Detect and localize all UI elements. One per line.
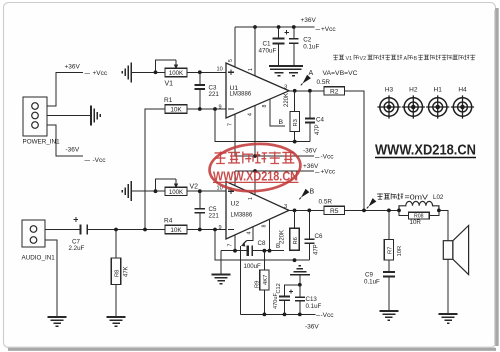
node output bus [362, 209, 366, 213]
label +36V rail [301, 17, 317, 24]
svg-text:0.1uF: 0.1uF [306, 303, 322, 310]
wire C7 to R4 [88, 229, 165, 231]
red watermark stamp [208, 141, 302, 194]
svg-text:LM3886: LM3886 [230, 91, 252, 97]
pin 4 U1 [248, 105, 257, 158]
capacitor C12 470uF [273, 283, 293, 314]
ground R8 [107, 317, 126, 326]
wire R1 left to audio input [145, 109, 165, 230]
svg-text:R1: R1 [164, 97, 173, 104]
svg-text:1: 1 [248, 68, 254, 71]
wire -36V from POWER_IN1 [47, 125, 83, 156]
node C6 top [307, 209, 311, 213]
svg-text:7: 7 [228, 123, 234, 126]
svg-text:-Vcc: -Vcc [321, 312, 335, 319]
capacitor C6 47P [304, 210, 323, 260]
node R3 top [293, 89, 297, 93]
svg-text:A: A [404, 56, 408, 62]
wire R3 top stem [294, 91, 296, 112]
wire R6 top stem [294, 210, 296, 228]
wire to C12 [285, 285, 300, 296]
mounting hole H2 [402, 87, 425, 119]
resistor R8 47K [111, 230, 129, 318]
pin 10 label U1 [217, 67, 223, 73]
node C13 bottom [298, 313, 302, 317]
pin 1 U1 [248, 25, 257, 75]
svg-text:5: 5 [228, 59, 234, 62]
svg-text:WWW.XD218.CN: WWW.XD218.CN [375, 142, 476, 159]
ground C9 [379, 311, 398, 320]
svg-text:2.2uF: 2.2uF [69, 245, 85, 252]
resistor R3 220K [290, 112, 299, 132]
wire R5 to L02 [345, 209, 400, 211]
svg-text:3: 3 [284, 85, 287, 91]
wire V2 wiper tie [156, 179, 177, 191]
wire speaker to ground [447, 259, 449, 314]
svg-text:L02: L02 [433, 194, 444, 201]
label V2 [190, 184, 199, 191]
svg-text:R6: R6 [293, 237, 299, 244]
power port +Vcc [85, 70, 108, 77]
svg-text:9: 9 [219, 225, 222, 231]
svg-text:0.1uF: 0.1uF [303, 44, 319, 51]
wire U2 feedback [215, 230, 309, 263]
svg-text:10R: 10R [397, 246, 403, 257]
label -36V [66, 147, 80, 154]
svg-text:C8: C8 [258, 240, 266, 247]
svg-text:POWER_IN1: POWER_IN1 [23, 139, 61, 146]
svg-text:+Vcc: +Vcc [321, 169, 336, 176]
potentiometer V1 [165, 68, 187, 77]
svg-text:B: B [279, 119, 284, 126]
ground at POWER_IN1 [91, 106, 100, 126]
svg-text:R7: R7 [388, 247, 394, 254]
svg-text:VA=VB=VC: VA=VB=VC [323, 70, 358, 77]
capacitor C13 0.1uF [295, 285, 322, 315]
wire V2 to U2 pin10 [187, 190, 226, 192]
svg-text:4: 4 [248, 113, 254, 116]
svg-text:470uF: 470uF [259, 48, 277, 55]
wire R3 bottom stem [294, 132, 296, 142]
node C1 [277, 25, 281, 29]
wire C8 to ground [220, 251, 222, 275]
ground left of V1 [122, 62, 131, 82]
svg-text:C2: C2 [303, 37, 312, 44]
wire ground to V2 [131, 190, 165, 192]
svg-text:B: B [414, 56, 418, 62]
svg-text:LM3886: LM3886 [231, 213, 253, 219]
ground AUDIO_IN1 [48, 317, 67, 326]
svg-text:WWW.XD218.CN: WWW.XD218.CN [213, 169, 298, 183]
node feedback U2 [213, 228, 217, 232]
svg-text:+36V: +36V [303, 163, 319, 170]
svg-text:10: 10 [217, 67, 223, 73]
label L02 [433, 194, 444, 201]
svg-text:H1: H1 [434, 87, 443, 94]
pin 9 label U1 [219, 105, 222, 111]
pin 5 U1 [228, 27, 235, 67]
resistor R4 10K [164, 218, 187, 235]
svg-text:C1: C1 [263, 41, 272, 48]
label -36V bottom [305, 324, 319, 331]
resistor R5 0.5R [324, 206, 345, 215]
svg-text:220K: 220K [284, 93, 290, 107]
ground above C12 C13 [290, 266, 310, 285]
label 0.5R R2 [317, 79, 331, 86]
ground speaker [439, 314, 458, 323]
inductor L02 [399, 201, 439, 210]
ground left of V2 [122, 181, 131, 201]
capacitor C2 0.1uF [289, 27, 319, 66]
website WWW.XD218.CN [375, 142, 476, 159]
svg-text:3: 3 [284, 204, 287, 210]
capacitor C3 221 [195, 72, 220, 109]
node V1 wiper tie [154, 70, 158, 74]
potentiometer V1 wiper arrow [174, 60, 178, 69]
wire ground to V1 [131, 71, 165, 73]
resistor R2 0.5R [324, 87, 345, 96]
pin 4 U2 to -Vcc [241, 227, 253, 314]
pin 5 U2 [228, 171, 235, 190]
node R7 branch [387, 209, 391, 213]
node C5 bottom [198, 228, 202, 232]
svg-text:100K: 100K [169, 70, 183, 77]
wire R4 to U2 pin9 [187, 229, 226, 231]
label -36V stub [303, 148, 317, 155]
svg-text:R5: R5 [330, 208, 339, 215]
pin 7 U2 [228, 235, 236, 251]
svg-text:C9: C9 [365, 272, 373, 279]
svg-text:1: 1 [248, 197, 254, 200]
resistor R1 10K [164, 97, 187, 114]
svg-text:4: 4 [247, 232, 253, 235]
wire AUDIO_IN1 to C7 [45, 229, 80, 231]
capacitor C9 0.1uF [364, 260, 395, 311]
wire AUDIO_IN1 bottom pin [45, 240, 57, 317]
node C12 C13 top [298, 283, 302, 287]
svg-text:V2: V2 [190, 184, 199, 191]
svg-text:+36V: +36V [65, 64, 81, 71]
capacitor C8 100uF [244, 240, 266, 270]
connector AUDIO_IN1 [22, 220, 56, 262]
svg-text:+Vcc: +Vcc [93, 70, 108, 77]
potentiometer V2 [165, 187, 187, 196]
pin 10 label U2 [217, 186, 223, 192]
resistor R7 10R [384, 210, 403, 260]
label 中点电位=0mV [377, 193, 428, 201]
node C4 top [308, 89, 312, 93]
svg-text:V1: V1 [346, 56, 353, 62]
svg-text:-36V: -36V [303, 148, 317, 155]
svg-text:B: B [310, 189, 315, 196]
pin 7 U1 [228, 114, 236, 156]
svg-text:+36V: +36V [301, 17, 317, 24]
node R9 bottom [263, 313, 267, 317]
svg-text:R3: R3 [293, 119, 299, 126]
node V2 wiper tie [154, 189, 158, 193]
annotation adjust V1 V2 [333, 55, 475, 62]
capacitor C1 470uF [259, 27, 290, 66]
label B at U2 pin8 [276, 243, 280, 250]
svg-text:0.1uF: 0.1uF [364, 279, 380, 286]
svg-text:8: 8 [262, 105, 268, 108]
mounting hole H3 [377, 87, 400, 119]
svg-text:+Vcc: +Vcc [321, 26, 336, 33]
node feedback U1 [213, 107, 217, 111]
capacitor C7 2.2uF [69, 217, 88, 252]
wire U1 output [289, 90, 324, 92]
label 0.5R R5 [319, 199, 333, 206]
svg-text:10K: 10K [170, 107, 182, 114]
node audio R1 junction [143, 228, 147, 232]
pin 1 U2 [248, 171, 255, 200]
svg-text:A: A [309, 70, 314, 77]
node L02 left [397, 209, 401, 213]
svg-text:V1: V1 [165, 81, 174, 88]
node C2 [292, 25, 296, 29]
svg-text:9: 9 [219, 105, 222, 111]
node R6 top [293, 209, 297, 213]
node C3 top [198, 70, 202, 74]
svg-text:H3: H3 [385, 87, 394, 94]
wire V1 wiper tie [156, 60, 177, 72]
svg-text:470uF: 470uF [273, 293, 279, 309]
svg-text:100uF: 100uF [244, 263, 262, 270]
label 220K R6 [280, 230, 286, 244]
ground C8 [212, 275, 231, 284]
svg-text:0.5R: 0.5R [319, 199, 333, 206]
svg-text:U2: U2 [231, 201, 240, 208]
svg-text:8: 8 [262, 225, 268, 228]
capacitor C5 221 [195, 191, 220, 229]
wire POWER_IN1 middle pin [47, 115, 91, 117]
svg-text:0.5R: 0.5R [317, 79, 331, 86]
svg-text:4K7: 4K7 [263, 275, 269, 285]
connector POWER_IN1 [23, 97, 61, 146]
wire +36V from POWER_IN1 [47, 72, 83, 106]
wire R2 to output bus [345, 91, 365, 211]
speaker LS1 [443, 226, 468, 275]
svg-text:47P: 47P [314, 244, 320, 255]
label +36V stub [303, 163, 319, 170]
wire +36V rail [235, 26, 315, 28]
svg-text:C6: C6 [315, 233, 323, 240]
capacitor C4 47P [305, 91, 325, 142]
wire U2 output [289, 209, 324, 211]
pin 9 label U2 [219, 225, 222, 231]
wire V1 to U1 pin10 [187, 71, 226, 73]
svg-text:H2: H2 [409, 87, 418, 94]
svg-text:100K: 100K [169, 189, 183, 196]
svg-text:-36V: -36V [305, 324, 319, 331]
wire R1 to U1 pin9 [187, 108, 226, 110]
wire -36V stub [235, 155, 314, 157]
pin 8 U1 stub to node B [262, 99, 285, 127]
svg-text:7: 7 [228, 244, 234, 247]
svg-text:221: 221 [209, 213, 220, 220]
resistor R6 220K [290, 228, 299, 250]
power port +Vcc rail [316, 26, 337, 33]
pin 3 label U2 [284, 204, 287, 210]
node B marker [299, 189, 314, 200]
svg-text:47P: 47P [315, 124, 321, 135]
wire +36V stub [235, 169, 314, 173]
svg-text:H4: H4 [458, 87, 467, 94]
label VA=VB=VC [323, 70, 358, 77]
label +36V [65, 64, 81, 71]
resistor R08 parallel [399, 210, 439, 226]
svg-text:-Vcc: -Vcc [321, 154, 335, 161]
svg-text:221: 221 [209, 91, 220, 98]
node midpoint marker [367, 198, 377, 208]
svg-text:R2: R2 [330, 89, 339, 96]
node R8 top [114, 228, 118, 232]
svg-text:C12: C12 [276, 283, 282, 293]
node C3 bottom [198, 107, 202, 111]
potentiometer V2 wiper arrow [174, 179, 178, 188]
label B at U1 pin8 [279, 119, 284, 126]
svg-text:220K: 220K [280, 230, 286, 244]
svg-text:=0mV: =0mV [405, 194, 429, 201]
wire C8 net [221, 250, 284, 252]
label 220K R3 [284, 93, 290, 107]
label V1 [165, 81, 174, 88]
ground C1 C2 [269, 66, 303, 76]
svg-text:R8: R8 [115, 270, 121, 277]
svg-text:C4: C4 [316, 117, 324, 124]
svg-text:47K: 47K [124, 266, 130, 277]
node pin7 C8 [233, 249, 237, 253]
svg-text:-Vcc: -Vcc [93, 157, 107, 164]
node U2 pin8 junction [268, 249, 272, 253]
svg-text:R4: R4 [164, 218, 173, 225]
power port -Vcc mid [315, 154, 334, 161]
op-amp U1 LM3886 [226, 63, 289, 118]
node C5 top [198, 189, 202, 193]
op-amp U2 LM3886 [226, 182, 289, 240]
resistor R9 4K7 [255, 251, 270, 315]
power port -Vcc bottom [316, 312, 334, 319]
pin 3 label U1 [284, 85, 287, 91]
node R9 top [263, 249, 267, 253]
svg-text:-36V: -36V [66, 147, 80, 154]
node L02 right [437, 209, 441, 213]
pin 8 U2 [262, 220, 270, 251]
power port -Vcc [85, 157, 107, 164]
power port +Vcc mid [315, 169, 336, 176]
svg-text:AUDIO_IN1: AUDIO_IN1 [22, 255, 56, 262]
svg-text:V2: V2 [360, 56, 367, 62]
node A marker [301, 70, 314, 85]
svg-text:10K: 10K [170, 227, 182, 234]
mounting hole H4 [451, 87, 474, 119]
svg-text:10R: 10R [410, 219, 422, 226]
wire to speaker [439, 210, 448, 240]
mounting hole H1 [426, 87, 449, 119]
wire U1 feedback [215, 109, 310, 144]
node C12 bottom [283, 313, 287, 317]
wire -Vcc bottom [241, 313, 316, 315]
svg-text:R9: R9 [255, 281, 261, 288]
